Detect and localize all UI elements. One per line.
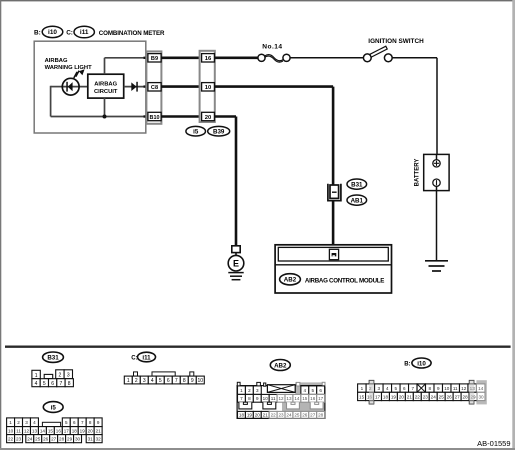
svg-text:26: 26 — [302, 413, 308, 418]
i10 X box — [417, 384, 425, 392]
svg-text:5: 5 — [311, 388, 314, 393]
svg-text:11: 11 — [16, 428, 21, 433]
svg-text:26: 26 — [447, 394, 453, 399]
svg-text:19: 19 — [247, 413, 253, 418]
svg-text:1: 1 — [127, 378, 130, 384]
connector AB2 body — [295, 382, 325, 394]
svg-text:7: 7 — [81, 420, 84, 425]
svg-text:21: 21 — [263, 413, 269, 418]
pin B9 — [148, 54, 161, 63]
AB2 row1 pins 1-6 — [238, 386, 246, 395]
svg-text:AB1: AB1 — [351, 198, 364, 205]
svg-text:AIRBAG: AIRBAG — [94, 82, 117, 88]
svg-text:21: 21 — [407, 394, 413, 399]
svg-text:i10: i10 — [48, 29, 57, 36]
svg-text:1: 1 — [35, 373, 38, 379]
svg-text:24: 24 — [27, 436, 33, 441]
svg-text:15: 15 — [302, 396, 308, 401]
svg-text:i10: i10 — [417, 360, 426, 367]
svg-text:B:: B: — [34, 29, 41, 36]
svg-text:18: 18 — [383, 394, 389, 399]
svg-text:23: 23 — [423, 394, 429, 399]
ground (battery) — [425, 261, 448, 271]
wire B10 to 20 — [161, 115, 202, 118]
svg-text:24: 24 — [286, 413, 292, 418]
wire: circuit box bottom to B10 row — [104, 98, 106, 116]
svg-text:COMBINATION METER: COMBINATION METER — [99, 30, 165, 37]
warning light LED — [62, 78, 79, 95]
svg-text:13: 13 — [286, 396, 292, 401]
oval B: i10 (layout) — [404, 358, 431, 368]
svg-text:AB2: AB2 — [284, 277, 297, 284]
svg-text:12: 12 — [461, 386, 467, 391]
section divider line — [5, 346, 511, 348]
svg-text:23: 23 — [278, 413, 284, 418]
i5 row1 pins 1-9 — [7, 418, 15, 427]
airbag circuit box — [88, 74, 124, 98]
diode D1 — [131, 82, 138, 92]
svg-text:15: 15 — [48, 428, 54, 433]
svg-text:26: 26 — [43, 436, 49, 441]
svg-text:5: 5 — [43, 381, 46, 387]
svg-text:3: 3 — [25, 420, 28, 425]
svg-text:18: 18 — [239, 413, 245, 418]
svg-text:2: 2 — [17, 420, 20, 425]
svg-text:B31: B31 — [351, 182, 363, 189]
svg-text:28: 28 — [59, 436, 65, 441]
ignition switch — [363, 38, 424, 62]
battery — [414, 154, 449, 190]
svg-text:6: 6 — [51, 381, 54, 387]
svg-text:21: 21 — [96, 428, 102, 433]
svg-text:20: 20 — [399, 394, 405, 399]
oval B31 — [347, 179, 367, 189]
svg-text:14: 14 — [478, 386, 484, 391]
svg-text:13: 13 — [32, 428, 38, 433]
svg-text:12: 12 — [278, 396, 284, 401]
meter connector strip (i10/i11) — [146, 51, 161, 123]
svg-text:3: 3 — [67, 373, 70, 379]
connector AB2 layout — [237, 382, 325, 418]
oval i5 (layout) — [43, 402, 63, 413]
svg-text:BATTERY: BATTERY — [414, 159, 420, 187]
svg-text:29: 29 — [67, 436, 73, 441]
svg-text:6: 6 — [167, 378, 170, 384]
svg-text:C:: C: — [66, 29, 73, 36]
wire: switch to battery — [392, 58, 437, 155]
svg-text:20: 20 — [88, 428, 94, 433]
module pin cell — [329, 249, 338, 259]
svg-text:23: 23 — [16, 436, 22, 441]
svg-text:18: 18 — [72, 428, 78, 433]
AB2 row2 pins 7-17 — [238, 394, 246, 402]
svg-text:3: 3 — [378, 386, 381, 391]
svg-text:i11: i11 — [80, 29, 89, 36]
connector i5 layout — [7, 418, 103, 443]
svg-text:15: 15 — [359, 394, 365, 399]
svg-text:17: 17 — [375, 394, 381, 399]
wire stubs into meter connector — [144, 58, 149, 117]
ground lines (E) — [228, 273, 243, 280]
svg-text:22: 22 — [8, 436, 14, 441]
wire: row10 to module — [214, 87, 333, 185]
svg-text:B31: B31 — [47, 355, 59, 362]
svg-text:4: 4 — [386, 386, 389, 391]
svg-text:7: 7 — [175, 378, 178, 384]
connector i10 body — [476, 380, 486, 404]
i10 row2 pins 15-30 — [358, 392, 366, 400]
wire: circuit box top to B9 row — [105, 58, 147, 74]
oval B31 (layout) — [43, 352, 64, 362]
svg-text:5: 5 — [159, 378, 162, 384]
svg-text:28: 28 — [318, 413, 324, 418]
AB2 keyway X box — [267, 385, 295, 393]
svg-text:28: 28 — [463, 394, 469, 399]
svg-text:7: 7 — [240, 396, 243, 401]
svg-text:7: 7 — [60, 381, 63, 387]
pin C8 — [148, 83, 161, 92]
svg-text:AB2: AB2 — [274, 362, 287, 369]
svg-text:i5: i5 — [51, 404, 57, 411]
oval B39 — [208, 126, 230, 136]
svg-text:4: 4 — [151, 378, 154, 384]
svg-text:25: 25 — [439, 394, 445, 399]
svg-text:27: 27 — [51, 436, 57, 441]
svg-text:11: 11 — [271, 396, 276, 401]
AB2 row3 pins 18-28 — [238, 411, 246, 418]
svg-text:16: 16 — [205, 56, 212, 62]
svg-text:20: 20 — [205, 115, 212, 121]
svg-text:17: 17 — [318, 396, 324, 401]
wire: meter internal left loop — [51, 86, 146, 117]
svg-text:B10: B10 — [150, 115, 160, 121]
wire C8 to 10 — [161, 85, 202, 88]
svg-text:4: 4 — [35, 381, 38, 387]
airbag control module box — [275, 245, 391, 293]
svg-text:i5: i5 — [193, 129, 199, 136]
inline connector strip (i5/B39) — [200, 51, 215, 122]
connector label B: i10 — [34, 26, 63, 37]
pin 10 — [202, 83, 215, 92]
connector i10 layout — [358, 380, 487, 404]
wire B9 to 16 — [161, 56, 202, 59]
svg-text:1: 1 — [9, 420, 12, 425]
svg-text:8: 8 — [428, 386, 431, 391]
svg-text:30: 30 — [75, 436, 81, 441]
svg-text:22: 22 — [415, 394, 421, 399]
svg-text:WARNING LIGHT: WARNING LIGHT — [45, 65, 92, 71]
svg-text:30: 30 — [478, 394, 484, 399]
svg-text:B9: B9 — [151, 56, 158, 62]
oval AB2 (module) — [280, 274, 301, 285]
AB2 keyways — [239, 402, 252, 409]
i10 tabs — [369, 380, 374, 384]
svg-text:10: 10 — [198, 378, 204, 384]
svg-text:10: 10 — [263, 396, 269, 401]
svg-text:9: 9 — [437, 386, 440, 391]
pin B10 — [148, 112, 161, 121]
i5 row3 pins 22-32 — [7, 435, 15, 443]
i10 shading bands — [369, 380, 374, 404]
svg-text:17: 17 — [64, 428, 70, 433]
svg-text:19: 19 — [80, 428, 86, 433]
oval AB1 — [347, 195, 367, 205]
svg-text:10: 10 — [444, 386, 450, 391]
svg-text:27: 27 — [455, 394, 461, 399]
svg-text:2: 2 — [248, 388, 251, 393]
svg-text:3: 3 — [256, 388, 259, 393]
svg-text:16: 16 — [310, 396, 316, 401]
svg-text:4: 4 — [33, 420, 36, 425]
svg-text:IGNITION SWITCH: IGNITION SWITCH — [368, 38, 424, 45]
svg-text:B:: B: — [404, 361, 410, 367]
svg-text:AIRBAG CONTROL MODULE: AIRBAG CONTROL MODULE — [305, 277, 384, 284]
svg-text:10: 10 — [8, 428, 14, 433]
svg-text:9: 9 — [191, 378, 194, 384]
svg-text:9: 9 — [256, 396, 259, 401]
svg-text:C8: C8 — [151, 85, 158, 91]
pin 20 — [202, 112, 215, 121]
svg-text:AIRBAG: AIRBAG — [45, 58, 68, 64]
wire: row20 to ground E — [214, 117, 236, 246]
connector label C: i11 — [66, 26, 94, 38]
svg-text:i11: i11 — [142, 354, 151, 361]
svg-text:4: 4 — [304, 388, 307, 393]
svg-text:20: 20 — [255, 413, 261, 418]
svg-text:27: 27 — [310, 413, 316, 418]
svg-text:No.14: No.14 — [262, 43, 282, 50]
inline connector B31/AB1 — [328, 184, 341, 201]
wire: circuit box right through diode to C8 — [124, 86, 146, 88]
illumination arrow — [74, 69, 85, 78]
svg-text:32: 32 — [96, 436, 102, 441]
oval i5 — [186, 126, 206, 136]
svg-text:9: 9 — [97, 420, 100, 425]
ground terminal square — [232, 246, 240, 253]
svg-text:2: 2 — [59, 373, 62, 379]
svg-text:C:: C: — [131, 355, 137, 361]
svg-text:8: 8 — [68, 381, 71, 387]
wire: connector to module — [332, 201, 335, 249]
i10 row1 pins 1-7 — [358, 384, 366, 392]
svg-text:E: E — [233, 258, 239, 268]
i10 row1 pins 8-14 — [426, 384, 434, 392]
svg-text:22: 22 — [271, 413, 277, 418]
svg-text:1: 1 — [361, 386, 364, 391]
svg-text:6: 6 — [319, 388, 322, 393]
wire: fuse to ignition switch — [290, 57, 363, 59]
wire: through LED to circuit box — [63, 86, 88, 88]
junction node — [103, 115, 107, 119]
connector B31 layout — [32, 370, 74, 387]
oval C: i11 (layout) — [131, 352, 155, 362]
svg-text:2: 2 — [135, 378, 138, 384]
i5 row2 pins 10-21 — [7, 427, 15, 435]
svg-text:8: 8 — [183, 378, 186, 384]
airbag warning light label — [45, 58, 92, 71]
svg-text:24: 24 — [431, 394, 437, 399]
svg-text:16: 16 — [56, 428, 62, 433]
oval AB2 (layout) — [270, 360, 290, 371]
pin 16 — [202, 54, 215, 63]
ground circle E — [228, 253, 244, 271]
svg-text:19: 19 — [391, 394, 397, 399]
svg-text:3: 3 — [143, 378, 146, 384]
svg-text:6: 6 — [73, 420, 76, 425]
combination meter box — [34, 41, 146, 133]
fuse No.14 — [258, 43, 290, 62]
svg-text:11: 11 — [453, 386, 458, 391]
svg-text:5: 5 — [395, 386, 398, 391]
svg-text:14: 14 — [40, 428, 46, 433]
svg-text:31: 31 — [88, 436, 94, 441]
svg-text:CIRCUIT: CIRCUIT — [94, 89, 118, 95]
svg-text:1: 1 — [240, 388, 243, 393]
svg-text:8: 8 — [89, 420, 92, 425]
svg-text:12: 12 — [24, 428, 30, 433]
svg-text:10: 10 — [205, 85, 212, 91]
svg-text:8: 8 — [248, 396, 251, 401]
connector i11 pins 1-10 — [124, 376, 132, 384]
svg-text:25: 25 — [35, 436, 41, 441]
svg-text:6: 6 — [403, 386, 406, 391]
svg-text:5: 5 — [65, 420, 68, 425]
wire: battery to ground — [436, 191, 438, 261]
svg-text:25: 25 — [294, 413, 300, 418]
svg-text:B39: B39 — [213, 129, 225, 136]
connector i11 layout — [134, 372, 194, 376]
wire: row16 to fuse — [214, 56, 258, 59]
svg-text:7: 7 — [412, 386, 415, 391]
svg-text:AB-01559: AB-01559 — [477, 439, 510, 448]
svg-text:14: 14 — [294, 396, 300, 401]
